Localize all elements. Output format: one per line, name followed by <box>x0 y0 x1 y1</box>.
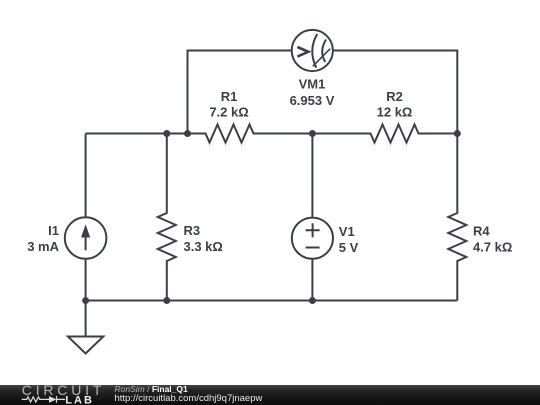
svg-text:LAB: LAB <box>65 394 94 405</box>
svg-text:http://circuitlab.com/cdhj9q7j: http://circuitlab.com/cdhj9q7jnaepw <box>115 393 263 404</box>
